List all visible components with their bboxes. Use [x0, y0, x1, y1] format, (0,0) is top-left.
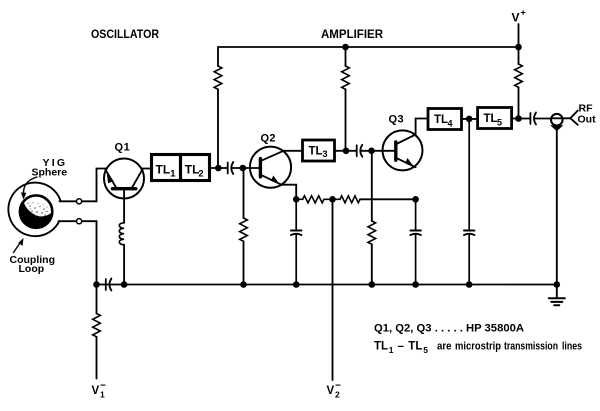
- node junction dot: [466, 281, 473, 288]
- wire coupling loop top lead: [60, 200, 77, 202]
- svg-text:TL: TL: [309, 146, 323, 158]
- node V2- label: [327, 381, 342, 400]
- wire V1 feed down from rail: [96, 285, 98, 314]
- svg-text:5: 5: [497, 118, 502, 128]
- Q2 base bar: [259, 159, 262, 177]
- node junction dot Q3 base: [368, 148, 375, 155]
- svg-text:V: V: [92, 385, 100, 397]
- svg-text:Loop: Loop: [19, 263, 45, 275]
- svg-text:lines: lines: [562, 341, 582, 353]
- wire Q1 base lead down to inductor: [123, 189, 125, 223]
- svg-text:1: 1: [170, 169, 176, 180]
- svg-text:Q2: Q2: [261, 133, 276, 145]
- svg-text:Q3: Q3: [389, 114, 405, 126]
- label TL5: [484, 113, 503, 128]
- node junction dot: [412, 281, 419, 288]
- capacitor (coupling, stage1 to stage2): [357, 145, 363, 157]
- Q2 collector: [261, 151, 284, 161]
- capacitor (coupling, osc to stage1): [228, 162, 234, 174]
- Q1 collector: [131, 169, 142, 188]
- Q1 base bar: [112, 187, 135, 190]
- wire capacitor to Q2 base node: [232, 167, 260, 169]
- Q3 base bar: [394, 142, 397, 160]
- wire resistor to TL2 output node: [217, 89, 219, 168]
- svg-text:2: 2: [198, 169, 203, 180]
- microstrip TL3 box: [303, 140, 335, 161]
- ground: [549, 298, 565, 305]
- wire Q2 collector to TL3: [284, 150, 303, 152]
- resistor (emitter chain, left): [296, 196, 332, 203]
- resistor (output stage feed): [515, 64, 523, 87]
- node junction dot at ground tap: [554, 281, 561, 288]
- capacitor (Q3 emitter bypass): [410, 199, 420, 284]
- node junction dot TL2 output: [215, 165, 222, 172]
- node junction dot Q2 emitter: [293, 196, 300, 203]
- svg-text:TL: TL: [374, 341, 388, 353]
- svg-text:microstrip: microstrip: [455, 341, 501, 353]
- wire top terminal to Q1 emitter: [82, 169, 107, 202]
- wire V+ lead down to top rail: [518, 24, 520, 47]
- wire coupling loop bottom lead: [59, 220, 77, 222]
- inductor (Q1 base RF choke): [119, 223, 124, 245]
- wire V2 feed down from chain tap: [332, 199, 334, 380]
- wire TL5 to output cap: [512, 118, 531, 120]
- svg-text:OSCILLATOR: OSCILLATOR: [91, 27, 159, 41]
- wire TL4 to TL5: [462, 118, 478, 120]
- node V+ supply label: [512, 8, 526, 25]
- ground rail (bottom bus): [97, 284, 558, 286]
- capacitor (on rail, left): [106, 279, 112, 291]
- arrow from label to coupling loop: [14, 242, 22, 253]
- resistor (V1 feed): [93, 314, 101, 337]
- svg-text:−: −: [335, 381, 341, 392]
- node junction dot Q2 base: [240, 165, 247, 172]
- svg-text:TL: TL: [185, 163, 200, 177]
- svg-text:TL: TL: [484, 113, 498, 125]
- transistor Q3: [383, 130, 423, 170]
- microstrip TL2 box: [181, 155, 210, 181]
- resistor (Q3 base bias): [368, 221, 376, 244]
- svg-text:Out: Out: [578, 114, 597, 126]
- wire chain to Q3 emitter node: [360, 198, 416, 200]
- node junction dot TL5 output: [515, 115, 522, 122]
- wire capacitor to Q3 base node: [361, 150, 396, 152]
- svg-text:TL: TL: [434, 114, 448, 126]
- wire TL2 to node: [210, 167, 228, 169]
- Q2 emitter with arrow: [261, 175, 282, 185]
- transistor Q2: [250, 147, 291, 188]
- label TL1: [156, 163, 204, 180]
- wire resistor to V1 terminal: [96, 337, 98, 379]
- wire resistor to TL3 output node: [345, 89, 347, 151]
- capacitor (Q2 emitter bypass): [291, 199, 301, 284]
- node junction dot TL4-TL5: [466, 116, 473, 123]
- wire top supply rail: [218, 46, 519, 48]
- svg-text:transmission: transmission: [504, 341, 558, 353]
- node junction dot V2 tap: [329, 196, 336, 203]
- terminal top (open circle): [77, 199, 82, 204]
- resistor (collector feed, oscillator): [214, 66, 222, 89]
- wire from rail dot down to resistor (amplifier stage 1 feed): [345, 47, 347, 66]
- resistor (emitter chain, right): [333, 196, 360, 203]
- wire inductor to ground rail: [123, 245, 125, 285]
- wire resistor to ground rail: [371, 244, 373, 284]
- wire down to ground symbol: [556, 285, 558, 299]
- node junction dot left end: [93, 281, 100, 288]
- node junction dot Q3 emitter: [412, 196, 419, 203]
- svg-text:Q1: Q1: [115, 142, 131, 154]
- svg-text:are: are: [437, 341, 452, 353]
- label Coupling Loop: [10, 254, 56, 275]
- svg-text:−: −: [100, 381, 106, 392]
- wire connector right to RF Out bracket: [562, 117, 570, 119]
- node junction dot on rail at V+: [515, 44, 522, 51]
- label TL4: [434, 114, 453, 129]
- microstrip TL1 box: [152, 155, 210, 181]
- wire bottom terminal down to ground rail: [82, 221, 97, 284]
- microstrip TL4 box: [428, 109, 462, 130]
- wire Q2 base node down to resistor: [243, 168, 245, 218]
- node junction dot on rail at amplifier feed: [342, 44, 349, 51]
- svg-text:+: +: [521, 8, 526, 18]
- Q3 collector: [396, 135, 415, 145]
- transistor Q1: [104, 159, 144, 199]
- wire resistor to ground rail: [243, 241, 245, 284]
- svg-text:TL: TL: [156, 163, 171, 177]
- label RF Out: [578, 103, 597, 126]
- svg-text:Q1, Q2, Q3 . . . . . HP 35800A: Q1, Q2, Q3 . . . . . HP 35800A: [374, 323, 524, 335]
- capacitor (output coupling): [530, 113, 536, 125]
- RF Out angle bracket: [570, 111, 578, 125]
- svg-text:TL: TL: [408, 341, 422, 353]
- label YIG Sphere: [32, 157, 68, 179]
- wire connector down to ground rail: [556, 128, 558, 284]
- capacitor (TL4-TL5 node bypass): [464, 119, 474, 285]
- svg-text:1: 1: [389, 345, 394, 355]
- node junction dot TL3 output: [343, 148, 350, 155]
- svg-text:3: 3: [323, 149, 328, 159]
- wire Q1 collector to TL1: [142, 168, 152, 170]
- svg-text:AMPLIFIER: AMPLIFIER: [321, 27, 383, 41]
- wire V+ down to resistor (output stage feed): [518, 47, 520, 64]
- svg-text:V: V: [327, 385, 335, 397]
- label TL3: [309, 146, 328, 160]
- note TL1-TL5 microstrip: [374, 341, 582, 356]
- wire Q3 base node down to resistor: [371, 151, 373, 221]
- node junction dot: [121, 281, 128, 288]
- wire TL3 to node: [335, 150, 357, 152]
- resistor (collector feed, amplifier stage 1): [342, 66, 350, 89]
- coupling loop (circle with leads): [8, 183, 60, 237]
- wire resistor to TL5 output node: [518, 87, 520, 118]
- RF output connector: [550, 114, 563, 131]
- Q3 emitter with arrow: [396, 158, 415, 167]
- wire capacitor to RF connector: [535, 118, 552, 120]
- wire from rail corner down to resistor (oscillator collector feed): [217, 47, 219, 66]
- arrow from label to YIG sphere: [23, 177, 37, 194]
- svg-text:4: 4: [448, 119, 453, 129]
- resistor (Q2 base bias): [240, 218, 248, 241]
- node junction dot: [240, 281, 247, 288]
- node V1- label: [92, 381, 107, 400]
- Q1 emitter with arrow: [105, 169, 117, 188]
- node junction dot: [369, 281, 376, 288]
- node junction dot: [293, 281, 300, 288]
- microstrip TL5 box: [478, 108, 512, 129]
- svg-text:–: –: [398, 341, 405, 353]
- wire Q3 collector up and to TL4: [416, 119, 428, 135]
- svg-text:V: V: [512, 11, 520, 25]
- svg-text:5: 5: [423, 345, 428, 355]
- terminal bottom (open circle): [77, 219, 82, 224]
- wire Q2 emitter down leg: [282, 185, 297, 200]
- YIG sphere: [20, 195, 52, 227]
